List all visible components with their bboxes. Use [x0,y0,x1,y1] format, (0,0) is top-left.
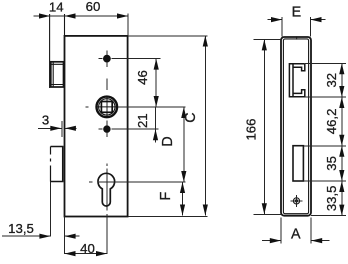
svg-text:35: 35 [324,156,339,171]
svg-text:33,5: 33,5 [324,185,339,211]
svg-text:C: C [183,112,199,122]
svg-text:46,2: 46,2 [324,109,339,135]
svg-text:40: 40 [80,241,95,256]
svg-text:14: 14 [49,0,64,15]
svg-text:21: 21 [135,113,150,128]
svg-text:46: 46 [135,70,150,85]
svg-text:3: 3 [42,113,49,128]
svg-text:32: 32 [324,73,339,88]
svg-text:166: 166 [244,118,259,140]
svg-text:F: F [158,191,174,200]
svg-text:60: 60 [86,0,101,14]
svg-text:E: E [292,5,302,21]
svg-text:A: A [291,227,301,243]
svg-text:13,5: 13,5 [8,221,34,236]
svg-text:D: D [160,136,176,146]
